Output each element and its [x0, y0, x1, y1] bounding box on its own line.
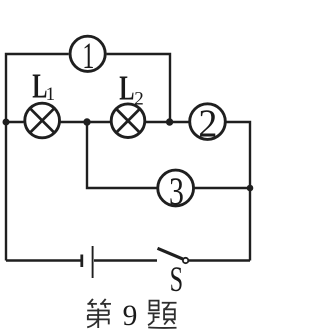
svg-text:9: 9: [123, 300, 138, 331]
svg-text:S: S: [170, 259, 184, 299]
switch S pivot: [183, 258, 188, 263]
battery positive plate: [92, 246, 94, 278]
node A junction dot: [83, 118, 90, 125]
ammeter U3 circle: [158, 170, 194, 206]
wire main line left segment: [6, 121, 24, 123]
caption character ti (题): [148, 301, 177, 328]
ammeter U2 circle: [190, 104, 226, 140]
node left junction dot: [3, 119, 10, 126]
battery negative plate: [80, 255, 83, 268]
svg-text:1: 1: [82, 36, 94, 77]
caption character di (第): [87, 299, 111, 328]
ammeter U1 circle: [70, 36, 105, 71]
svg-text:3: 3: [169, 170, 184, 213]
wire left vertical and top branch to ammeter 1: [6, 54, 69, 261]
wire node A down and right to ammeter 3: [87, 122, 157, 188]
wire ammeter 1 right to corner and down to node B: [107, 54, 170, 120]
wire battery to switch: [94, 259, 157, 261]
node B junction dot: [166, 118, 173, 125]
lamp L2 circle: [111, 104, 145, 138]
lamp L1 cross: [30, 108, 54, 132]
lamp L1 circle: [25, 103, 60, 138]
svg-text:L: L: [119, 68, 134, 107]
wire ammeter 3 to right vertical: [195, 187, 251, 189]
wire ammeter 2 to right vertical, down to bottom: [226, 122, 250, 261]
svg-text:2: 2: [198, 102, 217, 145]
svg-text:1: 1: [46, 84, 56, 105]
svg-text:2: 2: [134, 89, 144, 110]
wire lamp L2 to ammeter 2: [146, 121, 190, 123]
switch S blade: [158, 248, 184, 259]
wire switch to bottom right corner: [189, 259, 251, 261]
wire bottom left to battery: [6, 259, 81, 261]
lamp L2 cross: [116, 109, 140, 133]
wire between lamp L1 and lamp L2: [60, 121, 111, 123]
node C junction dot: [247, 185, 254, 192]
